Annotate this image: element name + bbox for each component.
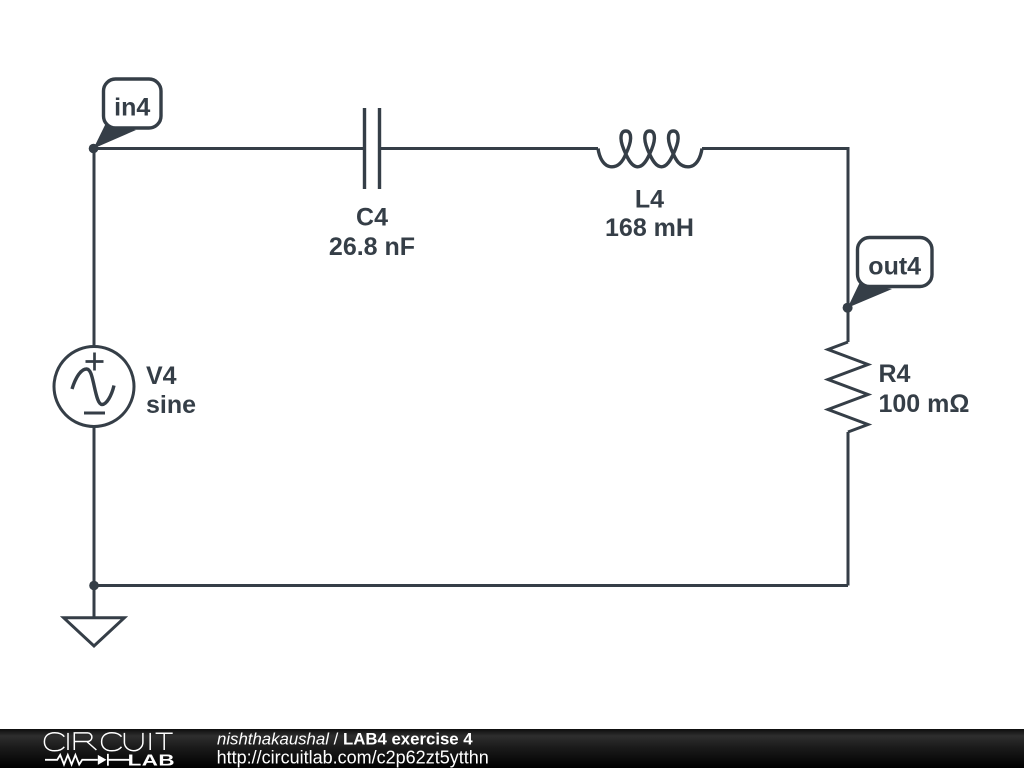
node dot: bottom-left junction [89,581,99,591]
voltage source V4 circle [54,347,134,427]
node dot: out4 [843,303,853,313]
footer bar [0,729,1024,768]
out4 flag box [858,238,933,287]
svg-text:in4: in4 [114,94,150,122]
svg-text:26.8 nF: 26.8 nF [329,233,415,261]
svg-text:168 mH: 168 mH [605,214,694,242]
svg-text:L4: L4 [635,186,664,214]
wire C4 to L4 [380,147,599,150]
resistor R4 zigzag [828,342,868,432]
inductor L4 coil [598,131,702,167]
in4 flag box [104,79,162,128]
V4 plus sign [86,353,104,371]
wire bottom [94,584,848,587]
CircuitLab logo: CIRCUIT thin letters [44,733,172,751]
ground symbol [64,618,125,646]
svg-text:nishthakaushal / LAB4 exercise: nishthakaushal / LAB4 exercise 4 [217,730,473,749]
svg-text:C4: C4 [356,204,388,232]
svg-text:out4: out4 [868,253,921,281]
svg-text:http://circuitlab.com/c2p62zt5: http://circuitlab.com/c2p62zt5ytthn [217,748,489,768]
svg-text:LAB: LAB [128,752,175,768]
wire V4 to bottom-left junction [93,427,96,586]
node dot: in4 [89,144,99,154]
CircuitLab logo: resistor-diode glyph [45,754,130,766]
wire left: in4 node down to V4 [93,149,96,347]
svg-text:V4: V4 [146,362,177,390]
wire ground stub [93,586,96,618]
wire L4 to top-right corner [702,149,848,343]
wire top-left: in4 node to C4 [94,147,365,150]
in4 flag tail [94,123,137,149]
capacitor C4 plates [365,108,380,189]
wire R4 bottom to bottom-right corner [847,432,850,586]
svg-text:sine: sine [146,391,196,419]
svg-text:R4: R4 [879,360,911,388]
V4 minus sign [84,412,105,415]
V4 sine wave [72,369,114,405]
svg-text:100 mΩ: 100 mΩ [879,390,970,418]
out4 flag tail [848,282,892,308]
